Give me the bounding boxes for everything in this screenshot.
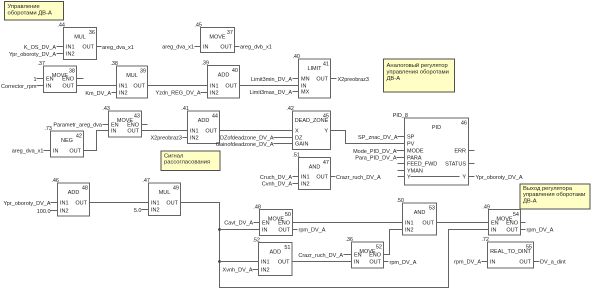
svg-text:MX: MX: [301, 90, 310, 96]
svg-text:Corrector_rpm: Corrector_rpm: [1, 84, 37, 90]
svg-text:MUL: MUL: [126, 73, 138, 79]
svg-text:rpm_DV_A: rpm_DV_A: [299, 228, 326, 234]
svg-text:.51: .51: [292, 153, 300, 159]
svg-text:IN2: IN2: [151, 208, 160, 214]
wire Corrector_rpm to MOVE38.IN: [37, 85, 44, 87]
svg-text:OUT: OUT: [133, 84, 145, 90]
wire REAL_TO_DINT55.OUT stub: [534, 261, 540, 263]
svg-text:OUT: OUT: [278, 228, 290, 234]
wire SP_znac_DV_A to PID46.SP: [398, 136, 405, 138]
svg-text:OUT: OUT: [62, 84, 74, 90]
svg-text:OUT: OUT: [75, 201, 87, 207]
wire Para_PID_DV_A to PID46.PARA: [397, 157, 405, 159]
svg-text:Crazr_ruch_DV_A: Crazr_ruch_DV_A: [336, 175, 381, 181]
svg-text:49: 49: [173, 186, 179, 192]
svg-text:5.0: 5.0: [134, 208, 142, 214]
svg-text:38: 38: [69, 69, 75, 75]
svg-text:LIMIT: LIMIT: [307, 66, 322, 72]
svg-text:areg_dvb_x1: areg_dvb_x1: [240, 45, 272, 51]
annotation: Управление оборотами ДВ-А: [5, 2, 64, 21]
wire MOVE43.ENO stub: [142, 124, 148, 126]
wire MOVE50.ENO to AND53.IN1: [293, 222, 403, 224]
block ADD 44 (ref .41): [181, 106, 219, 144]
svg-text:.72: .72: [481, 237, 489, 243]
svg-text:.45: .45: [194, 23, 202, 29]
svg-text:X2preobraz3: X2preobraz3: [151, 136, 183, 142]
svg-text:ДВ-А: ДВ-А: [523, 199, 537, 205]
svg-text:52: 52: [376, 245, 382, 251]
wire Limit3max_DV_A to LIMIT41.MX: [293, 91, 299, 93]
svg-text:43: 43: [134, 114, 140, 120]
svg-text:OUT: OUT: [519, 260, 531, 266]
svg-text:Y: Y: [324, 129, 328, 135]
wire MOVE37.OUT stub: [235, 46, 240, 48]
svg-text:Xvnh_DV_A: Xvnh_DV_A: [223, 268, 253, 274]
wire MOVE43.OUT to ADD44.IN1: [142, 130, 188, 132]
wire X2preobraz3 to ADD44.IN2: [183, 137, 188, 139]
svg-text:53: 53: [429, 206, 435, 212]
wire PID46.Y output stub: [469, 176, 475, 178]
svg-text:.48: .48: [253, 205, 261, 211]
block MOVE 54 (ref .49): [482, 205, 520, 236]
svg-text:OUT: OUT: [316, 175, 328, 181]
svg-text:PID: PID: [432, 125, 441, 131]
wire Ypr_oboroty_DV_A to ADD48.IN1: [51, 202, 58, 204]
svg-text:IN1: IN1: [301, 175, 310, 181]
svg-text:Сигнал: Сигнал: [164, 153, 183, 159]
block AND 53 (ref .50): [396, 198, 436, 235]
svg-text:IN: IN: [354, 260, 360, 266]
wire Mode_PID_DV_A to PID46.MODE: [397, 150, 405, 152]
block LIMIT 41 (ref .40): [292, 54, 330, 98]
svg-text:IN1: IN1: [60, 201, 69, 207]
svg-text:.41: .41: [181, 106, 189, 112]
block MOVE 50 (ref .48): [253, 205, 292, 236]
wire Xvnh_DV_A to ADD51.IN2: [253, 269, 259, 271]
svg-text:40: 40: [232, 68, 238, 74]
svg-text:X2preobraz3: X2preobraz3: [338, 77, 370, 83]
svg-text:IN2: IN2: [210, 91, 219, 97]
wire MUL39.OUT to ADD40.IN1: [148, 85, 208, 87]
svg-text:.49: .49: [482, 205, 490, 211]
svg-text:Cruch_DV_A: Cruch_DV_A: [260, 175, 292, 181]
svg-text:FEED_FWD: FEED_FWD: [407, 162, 437, 168]
wire ADD40.OUT to LIMIT41.IN: [240, 85, 299, 87]
wire Limit3min_DV_A to LIMIT41.MN: [293, 78, 299, 80]
svg-text:.39: .39: [201, 61, 209, 67]
svg-text:NEG: NEG: [61, 138, 73, 144]
junction MUL49.OUT branch to ADD51.IN1: [218, 260, 221, 263]
svg-text:IN2: IN2: [66, 52, 75, 58]
svg-text:ENO: ENO: [278, 221, 291, 227]
svg-text:Limit3max_DV_A: Limit3max_DV_A: [250, 90, 293, 96]
svg-text:.42: .42: [286, 106, 294, 112]
svg-text:EN: EN: [354, 253, 362, 259]
block MOVE 38 (ref .37): [37, 61, 76, 93]
svg-text:OUT: OUT: [166, 201, 178, 207]
svg-text:SP_znac_DV_A: SP_znac_DV_A: [358, 135, 398, 141]
block DEAD_ZONE 45 (ref .42): [286, 106, 330, 150]
svg-text:48: 48: [82, 186, 88, 192]
wire 1 to MOVE38.EN: [37, 78, 44, 80]
block MOVE 43 (ref .43): [102, 106, 141, 137]
svg-text:36: 36: [89, 30, 95, 36]
svg-text:OUT: OUT: [422, 221, 434, 227]
wire Cavt_DV_A to MOVE50.EN: [254, 222, 260, 224]
wire AND53.OUT to MOVE54.EN: [437, 222, 489, 224]
svg-text:Yzdn_REG_DV_A: Yzdn_REG_DV_A: [156, 91, 201, 97]
svg-text:OUT: OUT: [82, 45, 94, 51]
svg-text:OUT: OUT: [278, 260, 290, 266]
svg-text:ERR: ERR: [454, 149, 466, 155]
svg-text:.47: .47: [142, 178, 150, 184]
block MUL 39 (ref .38): [110, 61, 147, 98]
wire Cvnh_DV_A to AND47.IN2: [293, 183, 299, 185]
svg-text:OUT: OUT: [127, 129, 139, 135]
svg-text:IN: IN: [111, 129, 117, 135]
svg-text:IN: IN: [203, 45, 209, 51]
svg-text:IN: IN: [46, 84, 52, 90]
wire NEG42.OUT to MOVE43.IN: [84, 131, 109, 151]
block NEG 42 (ref .73): [44, 126, 83, 157]
svg-text:OUT: OUT: [69, 149, 81, 155]
svg-text:OUT: OUT: [225, 84, 237, 90]
svg-text:ADD: ADD: [68, 190, 80, 196]
block MUL 49 (ref .47): [142, 178, 180, 216]
svg-text:.73: .73: [44, 126, 52, 132]
svg-text:EN: EN: [491, 221, 499, 227]
svg-text:Управление: Управление: [8, 4, 40, 10]
svg-text:37: 37: [227, 30, 233, 36]
svg-text:OUT: OUT: [506, 228, 518, 234]
wire Km_DV_A to MUL39.IN2: [112, 92, 117, 94]
wire areg_dva_x1 to NEG42.IN: [44, 150, 51, 152]
wire Crazr_ruch_DV_A to MOVE52.EN: [344, 254, 352, 256]
svg-text:ADD: ADD: [218, 73, 230, 79]
block REAL_TO_DINT 55 (ref .72): [481, 237, 533, 268]
svg-text:.46: .46: [51, 178, 59, 184]
svg-text:MOVE: MOVE: [209, 35, 226, 41]
svg-text:Parametr_areg_dva: Parametr_areg_dva: [53, 123, 103, 129]
block ADD 51 (ref .52): [252, 238, 292, 276]
svg-text:Limit3min_DV_A: Limit3min_DV_A: [251, 77, 292, 83]
svg-text:rpm_DV_A: rpm_DV_A: [527, 228, 554, 234]
wire Yzdn_REG_DV_A to ADD40.IN2: [201, 92, 208, 94]
svg-text:1: 1: [33, 77, 36, 83]
svg-text:Выход регулятора: Выход регулятора: [523, 186, 573, 192]
svg-text:OUT: OUT: [220, 45, 232, 51]
svg-text:AND: AND: [309, 165, 321, 171]
svg-text:K_OS_DV_A: K_OS_DV_A: [24, 45, 56, 51]
svg-text:areg_dva_x1: areg_dva_x1: [12, 149, 44, 155]
svg-text:Ypr_oboroty_DV_A: Ypr_oboroty_DV_A: [476, 175, 523, 181]
svg-text:ENO: ENO: [369, 253, 382, 259]
wire PID46.YMAN input stub: [398, 170, 405, 172]
wire branch to ADD51.IN1: [220, 261, 259, 263]
svg-text:GAIN: GAIN: [295, 142, 308, 148]
svg-text:SP: SP: [407, 135, 415, 141]
wire Ypr_oboroty_DV_A to MUL36.IN2: [57, 53, 64, 55]
wire DEAD_ZONE45.Y to PID46.PV: [331, 131, 405, 144]
svg-text:.50: .50: [396, 198, 404, 204]
svg-text:100.0: 100.0: [37, 209, 51, 215]
wire PID46 internal Y to Y: [411, 176, 460, 178]
block PID 46 (instance PID_8): [393, 113, 469, 185]
wire 100.0 to ADD48.IN2: [51, 210, 58, 212]
svg-text:EN: EN: [46, 77, 54, 83]
annotation: Сигнал рассогласования: [161, 151, 220, 171]
svg-text:MUL: MUL: [159, 190, 171, 196]
wire ADD44.OUT to DEAD_ZONE45.X: [220, 130, 293, 132]
svg-text:IN2: IN2: [301, 182, 310, 188]
svg-text:Gainofdeadzone_DV_A: Gainofdeadzone_DV_A: [216, 142, 274, 148]
svg-text:47: 47: [323, 160, 329, 166]
svg-text:areg_dva_x1: areg_dva_x1: [102, 45, 134, 51]
svg-text:Y: Y: [462, 175, 466, 181]
wire MUL49.OUT trunk down and across to MOVE54.IN: [181, 203, 489, 288]
svg-text:DZofdeadzone_DV_A: DZofdeadzone_DV_A: [220, 136, 274, 142]
svg-text:оборотами ДВ-А: оборотами ДВ-А: [8, 11, 52, 17]
svg-text:IN1: IN1: [66, 45, 75, 51]
block AND 47 (ref .51): [292, 153, 330, 190]
wire ADD48.OUT to MUL49.IN1: [90, 202, 149, 204]
svg-text:.52: .52: [252, 238, 260, 244]
svg-text:Crazr_ruch_DV_A: Crazr_ruch_DV_A: [298, 253, 343, 259]
svg-text:ADD: ADD: [198, 118, 210, 124]
wire PID46.Y input stub: [398, 176, 405, 178]
svg-text:39: 39: [140, 69, 146, 75]
svg-text:.38: .38: [110, 61, 118, 67]
wire MOVE54.OUT stub: [521, 229, 526, 231]
wire MOVE50.OUT stub: [293, 229, 298, 231]
svg-text:IN1: IN1: [151, 201, 160, 207]
wire K_OS_DV_A to MUL36.IN1: [57, 46, 64, 48]
wire Gainofdeadzone_DV_A to DEAD_ZONE45.GAIN: [274, 143, 293, 145]
svg-text:MODE: MODE: [407, 149, 424, 155]
svg-text:51: 51: [284, 245, 290, 251]
svg-text:ENO: ENO: [62, 77, 75, 83]
block MOVE 52 (ref .36): [345, 237, 383, 268]
annotation: Аналоговый регулятор управления оборотами ДВ-А: [384, 59, 455, 92]
wire MOVE52.ENO to AND53.IN2: [384, 230, 403, 255]
wire PID46.FEED_FWD input stub: [398, 163, 405, 165]
svg-text:.44: .44: [57, 23, 65, 29]
svg-text:X: X: [295, 129, 299, 135]
svg-text:46: 46: [461, 121, 467, 127]
wire ADD51.OUT to MOVE52.IN: [292, 261, 352, 263]
svg-text:ENO: ENO: [506, 221, 519, 227]
svg-text:рассогласования: рассогласования: [164, 160, 210, 166]
svg-text:41: 41: [323, 62, 329, 68]
svg-text:IN: IN: [490, 260, 496, 266]
svg-text:MUL: MUL: [74, 35, 86, 41]
svg-text:Mode_PID_DV_A: Mode_PID_DV_A: [353, 149, 397, 155]
svg-text:Ypr_oboroty_DV_A: Ypr_oboroty_DV_A: [4, 201, 51, 207]
svg-text:.37: .37: [37, 61, 45, 67]
svg-text:AND: AND: [414, 210, 426, 216]
svg-text:IN1: IN1: [210, 84, 219, 90]
wire 5.0 to MUL49.IN2: [142, 209, 149, 211]
block MUL 36 (ref .44): [57, 23, 96, 60]
annotation: Выход регулятора управления оборотами ДВ-А: [520, 184, 590, 209]
wire branch to MOVE50.IN: [220, 229, 260, 231]
svg-text:IN: IN: [262, 228, 268, 234]
svg-text:ADD: ADD: [269, 250, 281, 256]
wire MUL36.OUT stub: [97, 46, 102, 48]
svg-text:IN2: IN2: [60, 209, 69, 215]
wire AND47.OUT stub: [331, 176, 336, 178]
svg-text:Y: Y: [407, 175, 411, 181]
svg-text:DEAD_ZONE: DEAD_ZONE: [295, 118, 329, 124]
wire Parametr_areg_dva to MOVE43.EN: [103, 124, 109, 126]
wire MOVE38.OUT to MUL39.IN1: [77, 85, 117, 87]
svg-text:Para_PID_DV_A: Para_PID_DV_A: [355, 156, 397, 162]
wire LIMIT41.OUT stub: [331, 78, 337, 80]
svg-text:IN2: IN2: [405, 228, 414, 234]
wire MOVE54.ENO stub: [521, 222, 526, 224]
svg-text:areg_dva_x1: areg_dva_x1: [162, 45, 194, 51]
block MOVE 37 (ref .45): [194, 23, 234, 53]
svg-text:IN2: IN2: [261, 268, 270, 274]
wire rpm_DV_A to REAL_TO_DINT55.IN: [482, 261, 488, 263]
svg-text:PV: PV: [407, 142, 415, 148]
block ADD 48 (ref .46): [51, 178, 89, 216]
svg-text:MN: MN: [301, 77, 310, 83]
svg-text:Cvnh_DV_A: Cvnh_DV_A: [262, 182, 293, 188]
svg-text:50: 50: [285, 212, 291, 218]
svg-text:.36: .36: [345, 237, 353, 243]
svg-text:44: 44: [212, 114, 218, 120]
wire DZofdeadzone_DV_A to DEAD_ZONE45.DZ: [274, 137, 293, 139]
svg-text:.40: .40: [292, 54, 300, 60]
svg-text:управления оборотами: управления оборотами: [387, 69, 449, 75]
svg-text:Km_DV_A: Km_DV_A: [85, 91, 111, 97]
svg-text:OUT: OUT: [316, 77, 328, 83]
svg-text:OUT: OUT: [205, 129, 217, 135]
block ADD 40 (ref .39): [201, 61, 239, 99]
svg-text:EN: EN: [262, 221, 270, 227]
junction MUL49.OUT branch to MOVE50.IN: [218, 228, 221, 231]
svg-text:IN1: IN1: [261, 260, 270, 266]
wire PID46.STATUS output stub: [469, 163, 475, 165]
svg-text:управления оборотами: управления оборотами: [523, 192, 585, 198]
svg-text:REAL_TO_DINT: REAL_TO_DINT: [490, 249, 531, 255]
svg-text:Аналоговый регулятор: Аналоговый регулятор: [387, 62, 448, 69]
wire areg_dva_x1 to MOVE37.IN: [195, 46, 201, 48]
svg-text:OUT: OUT: [369, 260, 381, 266]
wire MOVE38.ENO stub: [77, 78, 84, 80]
svg-text:PID_8: PID_8: [393, 113, 408, 119]
svg-text:Cavt_DV_A: Cavt_DV_A: [224, 221, 253, 227]
svg-text:54: 54: [513, 212, 519, 218]
wire PID46.ERR output stub: [469, 150, 475, 152]
svg-text:STATUS: STATUS: [445, 162, 466, 168]
svg-text:42: 42: [76, 134, 82, 140]
wire Cruch_DV_A to AND47.IN1: [293, 176, 299, 178]
svg-text:IN1: IN1: [119, 84, 128, 90]
svg-text:IN1: IN1: [405, 221, 414, 227]
svg-text:DV_a_dint: DV_a_dint: [540, 260, 566, 266]
svg-text:ДВ-А: ДВ-А: [387, 76, 401, 82]
svg-text:IN2: IN2: [119, 91, 128, 97]
svg-text:rpm_DV_A: rpm_DV_A: [454, 260, 481, 266]
svg-text:IN: IN: [53, 149, 59, 155]
svg-text:rpm_DV_A: rpm_DV_A: [390, 260, 417, 266]
svg-text:Ypr_oboroty_DV_A: Ypr_oboroty_DV_A: [9, 52, 56, 58]
svg-text:IN: IN: [491, 228, 497, 234]
svg-text:IN2: IN2: [190, 136, 199, 142]
svg-text:IN1: IN1: [190, 129, 199, 135]
wire MOVE52.OUT stub: [384, 261, 389, 263]
svg-text:.43: .43: [102, 106, 110, 112]
